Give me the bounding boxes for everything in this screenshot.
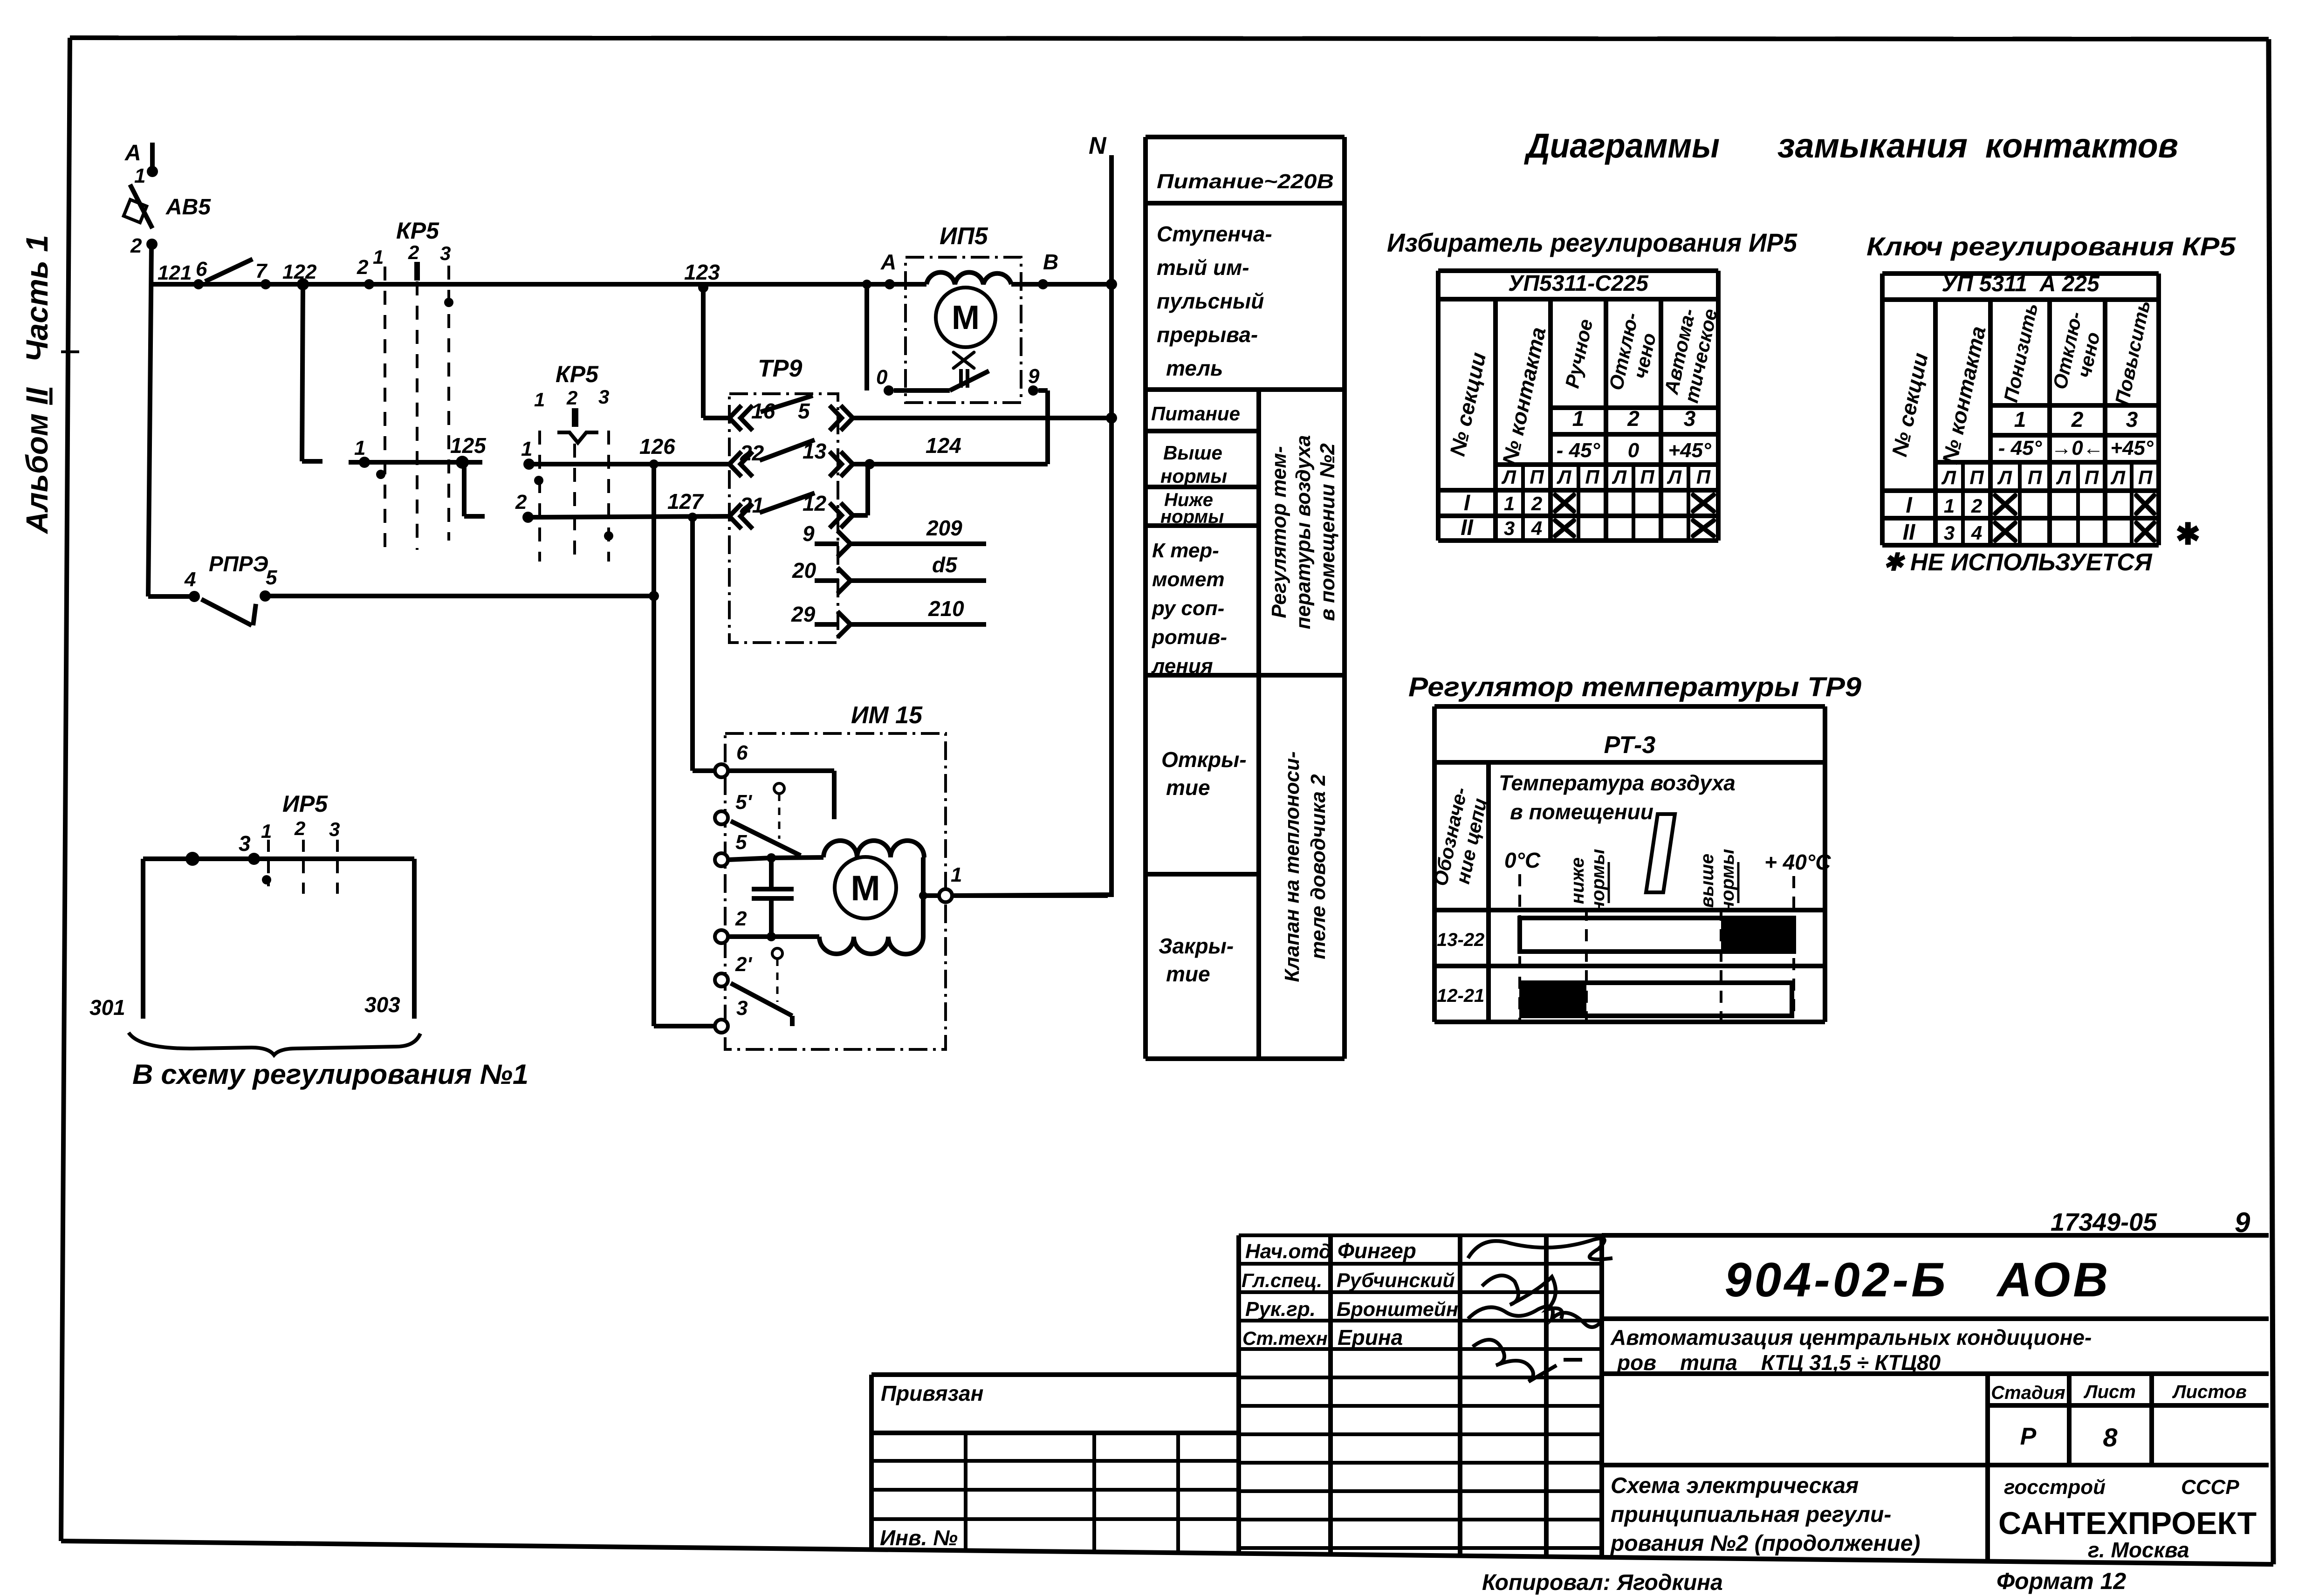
svg-text:М: М: [851, 869, 880, 908]
svg-text:тие: тие: [1166, 962, 1210, 986]
svg-text:Ступенча-: Ступенча-: [1157, 222, 1272, 246]
svg-text:→0←: →0←: [2051, 437, 2103, 459]
svg-text:3: 3: [1684, 406, 1696, 431]
svg-text:✱ НЕ ИСПОЛЬЗУЕТСЯ: ✱ НЕ ИСПОЛЬЗУЕТСЯ: [1883, 549, 2153, 576]
svg-text:Ст.техн: Ст.техн: [1242, 1328, 1328, 1349]
svg-text:1: 1: [1504, 493, 1515, 514]
svg-text:II: II: [1461, 515, 1474, 540]
svg-text:Регулятор температуры ТР9: Регулятор температуры ТР9: [1408, 672, 1861, 702]
svg-text:УП5311-С225: УП5311-С225: [1508, 271, 1649, 296]
svg-text:3: 3: [1944, 522, 1955, 544]
svg-text:Л: Л: [2110, 466, 2126, 488]
svg-text:Рук.гр.: Рук.гр.: [1245, 1298, 1316, 1321]
svg-text:Схема электрическая: Схема электрическая: [1611, 1473, 1859, 1498]
svg-text:9: 9: [1028, 365, 1040, 388]
svg-text:2: 2: [735, 907, 747, 930]
svg-text:II: II: [1903, 520, 1916, 545]
svg-text:Л: Л: [1667, 466, 1682, 488]
svg-text:Формат 12: Формат 12: [1996, 1568, 2126, 1594]
svg-text:13-22: 13-22: [1437, 930, 1484, 950]
svg-text:нормы: нормы: [1160, 465, 1227, 487]
svg-text:1: 1: [354, 437, 365, 459]
svg-text:САНТЕХПРОЕКТ: САНТЕХПРОЕКТ: [1998, 1506, 2257, 1541]
svg-text:РТ-3: РТ-3: [1604, 732, 1656, 759]
svg-text:2: 2: [357, 256, 369, 279]
svg-text:г. Москва: г. Москва: [2088, 1538, 2189, 1562]
svg-text:Альбом II Часть 1: Альбом II Часть 1: [20, 235, 54, 534]
svg-text:I: I: [1906, 493, 1913, 518]
svg-text:Питание: Питание: [1151, 403, 1240, 425]
svg-text:+45°: +45°: [1668, 439, 1711, 462]
svg-text:d5: d5: [932, 553, 958, 577]
svg-text:17349-05: 17349-05: [2051, 1208, 2157, 1236]
svg-text:6: 6: [196, 258, 207, 281]
svg-text:В схему регулирования №1: В схему регулирования №1: [132, 1059, 528, 1090]
svg-text:ИР5: ИР5: [282, 791, 328, 817]
svg-text:Автоматизация центральных конд: Автоматизация центральных кондиционе-: [1610, 1325, 2092, 1349]
svg-text:1: 1: [134, 164, 145, 187]
svg-text:Привязан: Привязан: [881, 1381, 983, 1405]
svg-text:1: 1: [261, 820, 272, 842]
svg-text:3: 3: [329, 818, 340, 840]
svg-text:ру соп-: ру соп-: [1152, 597, 1224, 620]
svg-text:Регулятор тем-: Регулятор тем-: [1268, 446, 1290, 618]
svg-text:5: 5: [735, 831, 747, 854]
svg-text:ИП5: ИП5: [940, 223, 988, 250]
svg-text:в помещении №2: в помещении №2: [1316, 443, 1339, 621]
svg-text:3: 3: [1504, 517, 1515, 539]
svg-text:выше: выше: [1697, 854, 1717, 908]
svg-text:29: 29: [791, 602, 816, 626]
svg-text:замыкания: замыкания: [1777, 126, 1968, 165]
svg-text:П: П: [1969, 466, 1984, 488]
svg-text:8: 8: [2103, 1423, 2118, 1452]
svg-text:Л: Л: [1612, 466, 1627, 488]
svg-text:209: 209: [926, 516, 962, 540]
svg-text:Л: Л: [1557, 466, 1572, 488]
svg-text:Диаграммы: Диаграммы: [1523, 126, 1720, 165]
svg-text:УП 5311 А 225: УП 5311 А 225: [1942, 272, 2100, 296]
svg-text:ниже: ниже: [1567, 857, 1588, 904]
svg-text:1: 1: [534, 389, 545, 411]
svg-text:в помещении: в помещении: [1510, 800, 1653, 824]
svg-text:Инв. №: Инв. №: [880, 1526, 958, 1550]
svg-text:ТР9: ТР9: [758, 355, 802, 382]
svg-text:ИМ 15: ИМ 15: [851, 702, 923, 729]
svg-text:КР5: КР5: [396, 218, 439, 244]
svg-text:Стадия: Стадия: [1991, 1383, 2065, 1403]
svg-text:К тер-: К тер-: [1152, 539, 1219, 562]
svg-text:Бронштейн: Бронштейн: [1337, 1298, 1458, 1321]
svg-text:1: 1: [1572, 406, 1585, 431]
svg-text:ления: ления: [1151, 655, 1213, 678]
svg-text:Клапан на теплоноси-: Клапан на теплоноси-: [1281, 751, 1304, 982]
svg-text:1: 1: [2014, 407, 2026, 432]
svg-text:Нач.отд: Нач.отд: [1245, 1240, 1331, 1263]
svg-text:3: 3: [239, 831, 251, 856]
svg-text:123: 123: [684, 260, 720, 284]
svg-text:Ерина: Ерина: [1338, 1325, 1403, 1349]
svg-text:12: 12: [803, 491, 827, 515]
svg-text:пературы воздуха: пературы воздуха: [1292, 435, 1315, 630]
svg-text:0: 0: [876, 366, 888, 389]
svg-text:Копировал: Ягодкина: Копировал: Ягодкина: [1482, 1570, 1723, 1595]
svg-text:1: 1: [373, 246, 384, 268]
svg-text:5: 5: [266, 566, 277, 589]
svg-text:Л: Л: [1501, 466, 1516, 488]
svg-text:тый им-: тый им-: [1157, 255, 1249, 280]
svg-text:нормы: нормы: [1160, 507, 1224, 527]
svg-text:3: 3: [440, 242, 451, 264]
svg-text:2: 2: [566, 387, 577, 409]
svg-text:Л: Л: [2056, 466, 2071, 488]
svg-text:+45°: +45°: [2110, 437, 2154, 459]
svg-text:нормы: нормы: [1717, 849, 1738, 912]
svg-text:ров типа КТЦ 31,5 ÷ КТЦ8: ров типа КТЦ 31,5 ÷ КТЦ80: [1616, 1350, 1941, 1375]
svg-text:прерыва-: прерыва-: [1157, 322, 1258, 347]
svg-text:- 45°: - 45°: [1998, 437, 2042, 459]
svg-text:пульсный: пульсный: [1157, 289, 1264, 313]
svg-text:А: А: [124, 141, 141, 165]
svg-text:303: 303: [364, 993, 400, 1017]
svg-text:3: 3: [598, 386, 609, 408]
svg-text:4: 4: [1971, 522, 1982, 544]
svg-text:9: 9: [803, 521, 815, 546]
svg-text:А: А: [880, 250, 896, 274]
svg-text:20: 20: [792, 558, 816, 582]
svg-text:210: 210: [928, 596, 964, 621]
svg-text:127: 127: [667, 489, 704, 514]
svg-text:Л: Л: [1941, 466, 1956, 488]
svg-text:П: П: [1696, 466, 1711, 488]
svg-text:I: I: [1464, 491, 1471, 515]
svg-text:тель: тель: [1166, 356, 1223, 380]
svg-text:2: 2: [1627, 406, 1640, 431]
svg-text:госстрой: госстрой: [2004, 1476, 2106, 1499]
svg-text:РПРЭ: РПРЭ: [209, 552, 268, 576]
svg-text:П: П: [2138, 466, 2153, 488]
svg-text:3: 3: [736, 997, 748, 1020]
svg-text:принципиальная регули-: принципиальная регули-: [1611, 1502, 1891, 1527]
svg-text:3: 3: [2126, 407, 2138, 432]
svg-text:АВ5: АВ5: [165, 195, 211, 219]
svg-text:2: 2: [1971, 495, 1982, 517]
svg-text:6: 6: [736, 741, 748, 764]
svg-text:2': 2': [735, 953, 752, 976]
svg-text:Питание~220В: Питание~220В: [1157, 170, 1334, 193]
svg-text:В: В: [1043, 250, 1058, 274]
svg-text:✱: ✱: [2175, 517, 2201, 551]
svg-text:1: 1: [1944, 495, 1955, 517]
svg-text:124: 124: [926, 433, 961, 458]
svg-text:Листов: Листов: [2172, 1382, 2247, 1402]
svg-text:5': 5': [735, 791, 752, 814]
svg-text:4: 4: [184, 568, 196, 591]
svg-text:2: 2: [294, 817, 305, 839]
svg-text:Температура воздуха: Температура воздуха: [1499, 771, 1736, 795]
svg-text:N: N: [1089, 132, 1107, 159]
svg-text:тие: тие: [1166, 775, 1210, 800]
svg-text:904-02-Б АОВ: 904-02-Б АОВ: [1725, 1253, 2111, 1307]
svg-text:М: М: [952, 299, 980, 336]
svg-text:рования №2 (продолжение): рования №2 (продолжение): [1610, 1531, 1920, 1556]
svg-text:П: П: [1640, 466, 1654, 488]
svg-text:момет: момет: [1152, 568, 1225, 591]
svg-text:2: 2: [408, 241, 419, 263]
svg-text:12-21: 12-21: [1437, 986, 1484, 1006]
svg-text:13: 13: [803, 439, 827, 463]
svg-text:СССР: СССР: [2181, 1476, 2239, 1499]
svg-text:контактов: контактов: [1985, 126, 2178, 165]
svg-text:7: 7: [255, 260, 268, 282]
svg-text:Выше: Выше: [1163, 442, 1222, 464]
svg-text:Рубчинский: Рубчинский: [1337, 1269, 1455, 1292]
svg-text:+ 40°С: + 40°С: [1764, 850, 1831, 874]
svg-text:теле доводчика 2: теле доводчика 2: [1307, 774, 1330, 959]
svg-text:301: 301: [89, 995, 125, 1020]
svg-text:П: П: [2085, 466, 2099, 488]
svg-text:- 45°: - 45°: [1557, 439, 1600, 462]
svg-text:Фингер: Фингер: [1338, 1239, 1416, 1263]
svg-text:0: 0: [1628, 439, 1640, 462]
svg-text:нормы: нормы: [1588, 849, 1608, 912]
svg-text:Избиратель регулирования ИР5: Избиратель регулирования ИР5: [1387, 228, 1797, 257]
svg-text:П: П: [1585, 466, 1599, 488]
svg-text:121: 121: [158, 261, 192, 284]
svg-text:Л: Л: [1997, 466, 2012, 488]
svg-text:2: 2: [2071, 407, 2084, 432]
svg-text:5: 5: [798, 399, 810, 423]
svg-text:Р: Р: [2020, 1423, 2037, 1450]
svg-text:П: П: [2028, 466, 2042, 488]
svg-text:Закры-: Закры-: [1159, 934, 1234, 958]
svg-text:126: 126: [639, 434, 675, 459]
svg-text:1: 1: [951, 863, 962, 886]
svg-text:Лист: Лист: [2083, 1382, 2136, 1402]
svg-text:1: 1: [521, 438, 532, 460]
svg-text:2: 2: [1531, 493, 1542, 514]
svg-text:0°С: 0°С: [1504, 848, 1541, 872]
svg-text:125: 125: [450, 433, 487, 458]
svg-text:2: 2: [515, 491, 527, 514]
svg-text:КР5: КР5: [556, 361, 599, 387]
svg-text:2: 2: [130, 234, 142, 257]
svg-text:Гл.спец.: Гл.спец.: [1242, 1269, 1322, 1291]
svg-text:Ключ регулирования КР5: Ключ регулирования КР5: [1866, 232, 2236, 261]
svg-text:Откры-: Откры-: [1161, 747, 1247, 772]
svg-text:П: П: [1530, 466, 1544, 488]
svg-text:ротив-: ротив-: [1152, 626, 1227, 649]
svg-text:4: 4: [1531, 517, 1542, 539]
